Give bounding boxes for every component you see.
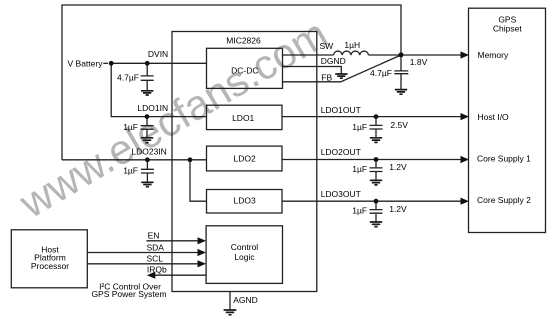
svg-text:Core Supply 1: Core Supply 1	[477, 153, 531, 163]
svg-text:FB: FB	[321, 73, 332, 83]
junction V Battery node	[109, 61, 114, 66]
arrowhead Host I/O input	[461, 113, 470, 120]
svg-text:LDO2OUT: LDO2OUT	[321, 147, 361, 157]
svg-text:LDO3: LDO3	[233, 196, 255, 206]
svg-text:1µF: 1µF	[123, 165, 138, 175]
svg-text:SW: SW	[320, 41, 334, 51]
svg-text:LDO1: LDO1	[232, 113, 254, 123]
ground at C6	[370, 180, 382, 185]
wire: LDO23IN row from left loop into LDO2	[62, 159, 206, 161]
svg-text:1µF: 1µF	[352, 122, 367, 132]
svg-text:LDO1OUT: LDO1OUT	[321, 105, 361, 115]
svg-text:AGND: AGND	[233, 295, 258, 305]
svg-text:1.2V: 1.2V	[389, 204, 407, 214]
junction DVIN cap node	[145, 61, 150, 66]
box DC-DC converter	[207, 48, 283, 88]
svg-text:LDO2: LDO2	[233, 154, 255, 164]
box Host Platform Processor	[11, 230, 87, 288]
svg-text:SDA: SDA	[147, 242, 165, 252]
wire: V Battery to DVIN into DC-DC	[111, 62, 206, 64]
svg-text:Host I/O: Host I/O	[478, 112, 510, 122]
box LDO2	[207, 146, 283, 171]
wire: 1.8V feed loop from DC-DC output to LDO23IN (top and left)	[62, 5, 401, 160]
svg-text:V Battery: V Battery	[68, 58, 104, 68]
capacitor C7 1uF at LDO3OUT	[370, 201, 383, 221]
arrowhead SDA into control logic	[198, 249, 207, 256]
svg-text:LDO3OUT: LDO3OUT	[321, 189, 361, 199]
arrowhead EN into control logic	[198, 237, 207, 244]
wire: V Battery down to LDO1IN row	[111, 63, 206, 116]
wire: DGND pin to ground	[283, 67, 342, 74]
wire: 1.8V node to Memory arrow	[401, 54, 461, 56]
svg-text:2.5V: 2.5V	[390, 120, 408, 130]
svg-text:Chipset: Chipset	[493, 23, 522, 33]
svg-text:1µF: 1µF	[352, 205, 367, 215]
wire: LDO2OUT row to Core Supply 1 arrow	[283, 159, 462, 161]
capacitor C5 1uF at LDO1OUT	[370, 117, 383, 138]
wire: V Battery dash	[103, 62, 108, 64]
svg-text:1.8V: 1.8V	[410, 57, 428, 67]
ground at DGND	[335, 74, 347, 78]
capacitor C6 1uF at LDO2OUT	[370, 160, 383, 180]
svg-text:Control: Control	[231, 242, 259, 252]
arrowhead Core Supply 2 input	[461, 198, 470, 205]
svg-text:DGND: DGND	[321, 56, 346, 66]
junction LDO1OUT cap node	[374, 114, 379, 119]
svg-text:LDO1IN: LDO1IN	[137, 103, 168, 113]
ground at C7	[370, 222, 382, 227]
junction LDO23IN trunk node	[188, 157, 193, 162]
svg-text:Memory: Memory	[478, 50, 509, 60]
svg-text:LDO23IN: LDO23IN	[131, 147, 166, 157]
junction LDO23IN cap node	[145, 157, 150, 162]
capacitor C3 1uF at LDO23IN	[141, 160, 154, 182]
ground at C1	[141, 91, 153, 95]
svg-text:Core Supply 2: Core Supply 2	[477, 195, 531, 205]
box LDO3	[207, 190, 283, 214]
junction LDO1IN cap node	[145, 114, 150, 119]
ground at C2	[141, 138, 153, 143]
svg-text:DC-DC: DC-DC	[231, 65, 258, 75]
svg-text:4.7µF: 4.7µF	[370, 68, 392, 78]
ground at C3	[141, 182, 153, 186]
wire: EN line	[147, 240, 199, 242]
svg-text:Logic: Logic	[234, 252, 255, 262]
svg-text:1µH: 1µH	[344, 40, 360, 50]
inductor L1 1uH	[334, 51, 369, 55]
svg-text:DVIN: DVIN	[148, 49, 168, 59]
capacitor C1 4.7uF at DVIN	[141, 63, 154, 90]
junction 1.8V node	[399, 52, 404, 57]
box GPS Chipset	[469, 8, 546, 232]
svg-text:4.7µF: 4.7µF	[117, 72, 139, 82]
svg-text:SCL: SCL	[147, 253, 164, 263]
ground at C4	[395, 90, 407, 95]
arrowhead Core Supply 1 input	[461, 156, 470, 163]
svg-text:Processor: Processor	[31, 261, 69, 271]
wire: IRQb line to control logic	[155, 274, 207, 276]
wire: AGND stem	[229, 292, 231, 310]
svg-text:IRQb: IRQb	[147, 265, 167, 275]
box LDO1	[207, 105, 283, 129]
box MIC2826 outline	[172, 32, 317, 292]
wire: SCL line from host	[87, 263, 198, 265]
ground at C5	[370, 138, 382, 143]
box Control Logic	[206, 226, 282, 284]
wire: inductor to 1.8V node	[369, 54, 402, 56]
wire: SW pin to inductor	[283, 54, 334, 56]
wire: SDA line from host	[87, 252, 198, 254]
wire: LDO1OUT row to Host I/O arrow	[283, 116, 462, 118]
svg-text:1µF: 1µF	[123, 122, 138, 132]
svg-text:GPS Power System: GPS Power System	[91, 289, 166, 299]
svg-text:1.2V: 1.2V	[389, 162, 407, 172]
svg-text:1µF: 1µF	[352, 164, 367, 174]
arrowhead SCL into control logic	[198, 260, 207, 267]
svg-text:MIC2826: MIC2826	[226, 36, 261, 46]
junction LDO3OUT cap node	[374, 199, 379, 204]
wire: LDO3OUT row to Core Supply 2 arrow	[283, 200, 462, 202]
arrowhead IRQb to host	[147, 272, 156, 279]
wire: FB pin diagonal to 1.8V node	[283, 55, 402, 82]
junction LDO2OUT cap node	[374, 157, 379, 162]
wire: LDO23IN trunk down to LDO3	[190, 160, 206, 201]
capacitor C2 1uF at LDO1IN	[141, 117, 154, 138]
svg-text:EN: EN	[148, 230, 160, 240]
capacitor C4 4.7uF at 1.8V output	[394, 55, 408, 89]
arrowhead Memory input	[461, 51, 470, 58]
ground AGND symbol	[224, 310, 237, 315]
